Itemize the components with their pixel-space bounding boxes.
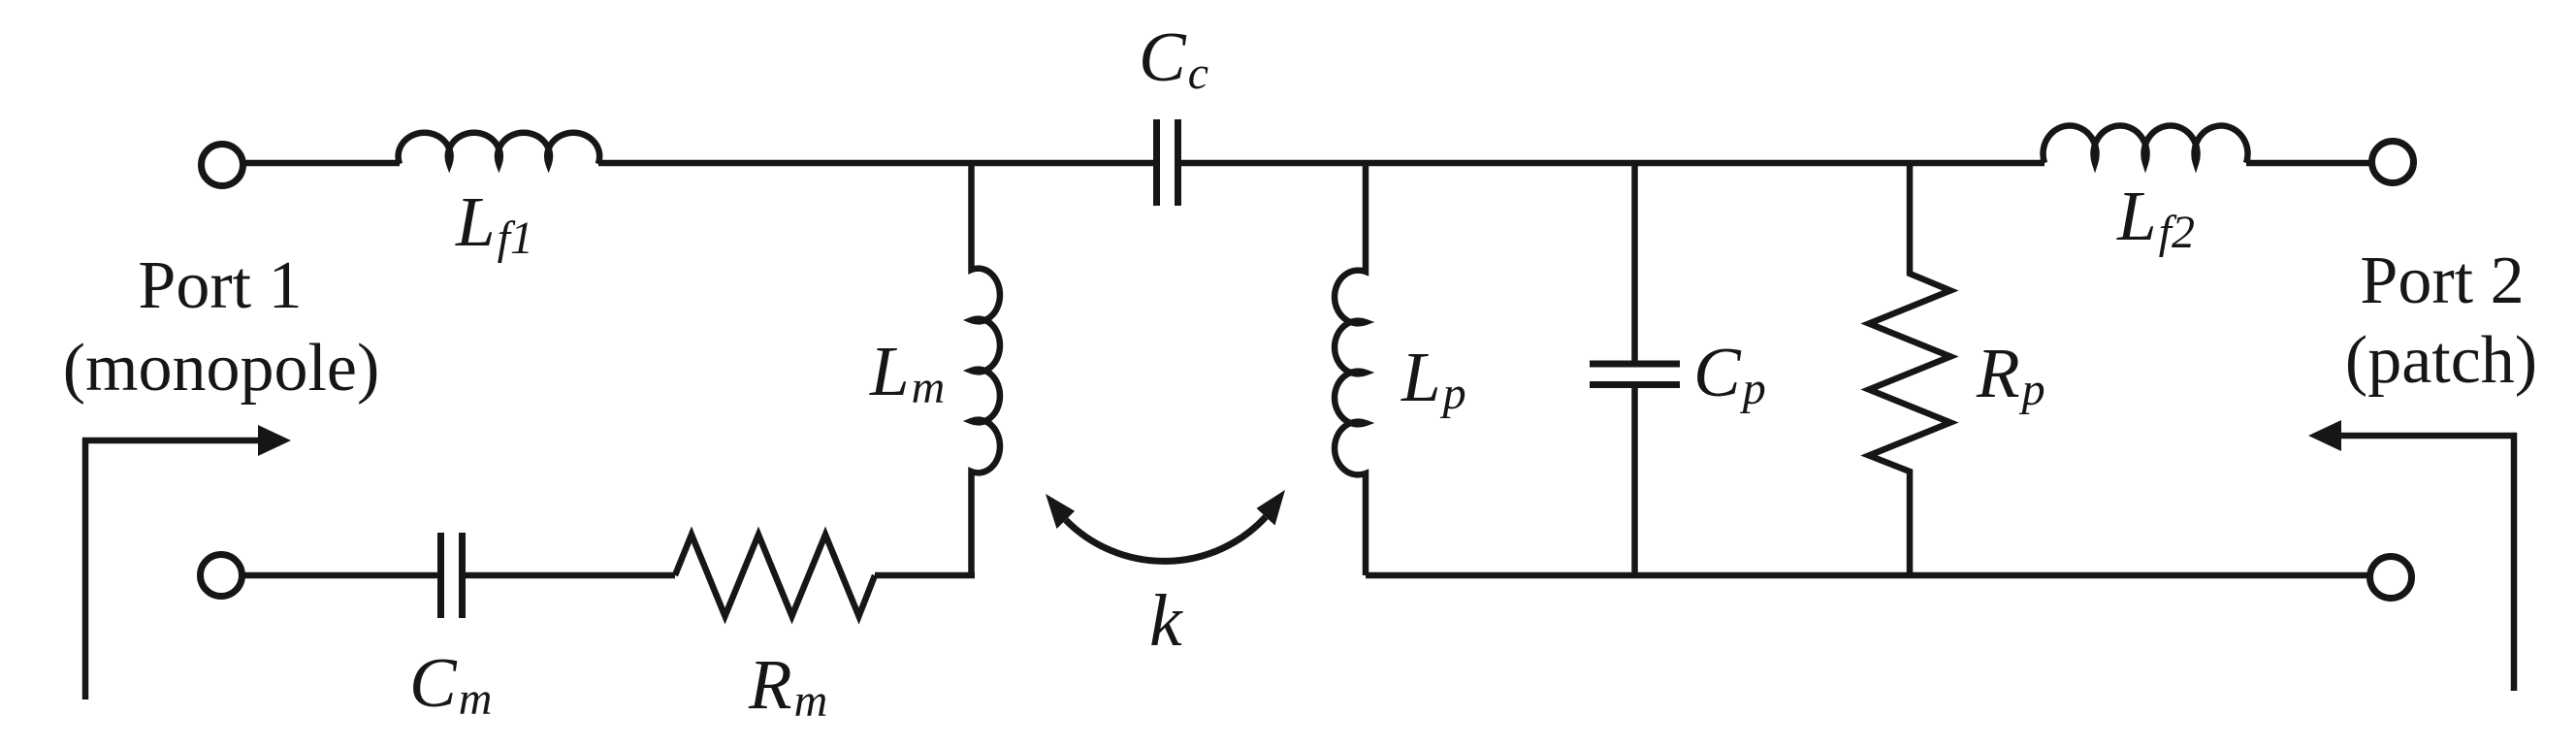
svg-text:Lp: Lp [1401, 338, 1466, 419]
svg-text:k: k [1149, 580, 1183, 662]
svg-text:Lf1: Lf1 [455, 182, 533, 264]
capacitor Cp (vertical lead + plates) [1631, 163, 1638, 361]
port 1 top terminal [202, 145, 243, 186]
wire top-left [243, 160, 400, 167]
port 1 reference arrow [85, 440, 260, 700]
coupling arc k [1066, 517, 1266, 562]
svg-text:Port 1: Port 1 [138, 248, 302, 323]
resistor Rm (horizontal zigzag) [675, 535, 875, 616]
svg-text:Lm: Lm [869, 332, 945, 413]
inductor Lf1 [399, 133, 600, 164]
wire bottom-left to Cm [241, 572, 437, 579]
port 2 arrowhead [2308, 420, 2341, 451]
wire to port 2 [2246, 160, 2371, 167]
wire bottom-right [1366, 572, 2370, 579]
svg-text:Lf2: Lf2 [2116, 177, 2195, 258]
svg-text:Rm: Rm [748, 645, 827, 727]
port 2 reference arrow [2339, 436, 2514, 691]
inductor Lm (vertical, humps right) [972, 163, 1000, 575]
capacitor Cc [1157, 119, 1178, 206]
wire Rm to Lm [875, 572, 975, 579]
port 2 bottom terminal [2370, 557, 2412, 599]
svg-text:(patch): (patch) [2345, 323, 2537, 398]
svg-text:Cp: Cp [1693, 333, 1766, 414]
wire Cc to Lf2 [1181, 160, 2045, 167]
coupling arc left arrowhead [1046, 494, 1075, 529]
port 1 arrowhead [258, 425, 291, 456]
wire Cm to Rm [466, 572, 675, 579]
svg-text:Rp: Rp [1976, 334, 2045, 415]
coupling arc right arrowhead [1257, 490, 1286, 526]
inductor Lf2 [2043, 126, 2247, 163]
svg-text:Port 2: Port 2 [2360, 244, 2524, 318]
capacitor Cm [441, 533, 463, 618]
svg-text:Cc: Cc [1139, 17, 1208, 99]
svg-text:(monopole): (monopole) [63, 331, 380, 406]
port 2 top terminal [2372, 142, 2414, 183]
port 1 bottom terminal [201, 555, 242, 597]
inductor Lp (vertical, humps left) [1335, 163, 1366, 575]
svg-text:Cm: Cm [409, 643, 492, 725]
resistor Rp (vertical zigzag) [1869, 163, 1950, 575]
wire Lf1 to Cc [598, 160, 1153, 167]
